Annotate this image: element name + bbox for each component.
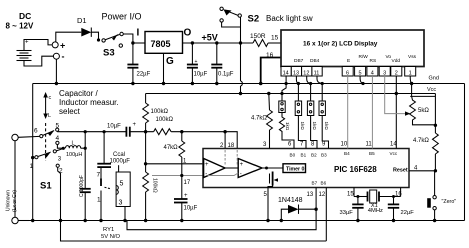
junction left edge / bottom rail [31, 219, 34, 222]
svg-text:Timer 0: Timer 0 [286, 167, 304, 173]
svg-text:Gnd: Gnd [429, 76, 439, 82]
wire S1 pin2 to ground [58, 167, 61, 220]
svg-text:4: 4 [56, 135, 60, 142]
svg-text:RY1: RY1 [103, 227, 114, 233]
wire into regulator [133, 42, 145, 44]
svg-text:S3: S3 [103, 48, 115, 59]
tank vertical wire [84, 132, 86, 189]
svg-text:B4: B4 [344, 151, 350, 156]
switch S1 pole A [34, 123, 60, 145]
wire comparator1 out to comparator2 [225, 167, 238, 169]
labels pins 6 7 8 9 [288, 142, 326, 148]
svg-text:12: 12 [319, 192, 326, 198]
svg-text:5: 5 [359, 70, 362, 76]
svg-text:17: 17 [184, 180, 191, 186]
svg-text:7805: 7805 [151, 39, 171, 49]
wire node to PIC pin 18 [225, 132, 237, 149]
resistor 100k horizontal [154, 117, 226, 135]
label DC 8~12V [6, 11, 34, 31]
svg-text:13: 13 [307, 192, 314, 198]
diode D1 [77, 16, 91, 37]
junction inductor/tank [84, 147, 87, 150]
wire S1 pin4 to inductor [57, 145, 64, 149]
resistor 4.7k reset pullup [413, 125, 438, 171]
S1 mechanical link dashed [45, 123, 47, 161]
svg-text:1kΩ: 1kΩ [285, 122, 290, 131]
junction G to ground rail [162, 82, 165, 85]
svg-text:select: select [59, 107, 81, 116]
LCD RW wire to ground [360, 76, 363, 84]
svg-text:(Lx or Cx): (Lx or Cx) [12, 190, 18, 212]
resistor 47k [164, 132, 185, 223]
svg-text:4MHz: 4MHz [368, 208, 383, 214]
relay RY1 contact [97, 167, 111, 222]
svg-text:1kΩ: 1kΩ [300, 122, 305, 131]
svg-text:B7: B7 [312, 181, 318, 186]
PIC pin 12 wire to ground loop [325, 188, 327, 242]
diode 1N4148 [278, 197, 318, 222]
svg-text:16 x 1(or 2) LCD Display: 16 x 1(or 2) LCD Display [303, 41, 378, 48]
svg-text:C 1000pF: C 1000pF [79, 175, 85, 197]
timer block Timer 0 [283, 164, 306, 173]
svg-text:B5: B5 [369, 151, 375, 156]
svg-text:10µF: 10µF [194, 72, 208, 78]
svg-text:+: + [195, 59, 198, 65]
junction node B [144, 162, 147, 165]
svg-text:100µH: 100µH [66, 152, 82, 158]
wire cap to node A [130, 131, 154, 133]
svg-text:B2: B2 [311, 153, 317, 158]
svg-text:PIC 16F628: PIC 16F628 [334, 165, 377, 174]
capacitor 33pF [340, 195, 364, 222]
comparator 2 inside PIC [238, 159, 262, 178]
svg-text:+: + [133, 122, 137, 128]
svg-text:47kΩ: 47kΩ [164, 145, 179, 151]
svg-text:-: - [205, 172, 207, 178]
crystal X1 4MHz [347, 188, 402, 214]
svg-text:1: 1 [30, 163, 34, 170]
unknown component link between terminals [14, 141, 16, 218]
wire top terminal to S1 pin 6 [18, 135, 39, 138]
svg-text:Reset: Reset [393, 167, 408, 173]
Vcc rail right drop [434, 94, 436, 126]
wire inductor to tank vertical [81, 147, 86, 149]
outer ground loop bottom [61, 221, 327, 242]
ground rail right drop [464, 84, 466, 221]
svg-text:11: 11 [314, 70, 320, 76]
wire plus terminal up to D1 [56, 32, 82, 42]
junction N2 47k tap [180, 130, 183, 133]
junction node/tank top [84, 130, 87, 133]
svg-text:33µF: 33µF [340, 210, 354, 216]
switch S2 backlight [220, 7, 313, 43]
wire D1 to S3 [91, 32, 98, 38]
gray wire into comp2 minus [208, 173, 239, 176]
main oscillator node wire [56, 130, 58, 132]
svg-text:-: - [240, 172, 242, 178]
svg-text:10: 10 [341, 141, 348, 147]
svg-text:10µF: 10µF [184, 206, 198, 212]
svg-text:3: 3 [383, 70, 386, 76]
svg-text:Back light sw: Back light sw [266, 14, 313, 23]
svg-text:22µF: 22µF [401, 210, 415, 216]
capacitor 10uF output [187, 41, 208, 85]
svg-text:14: 14 [390, 141, 397, 147]
svg-text:S2: S2 [248, 14, 260, 25]
svg-text:Vss: Vss [408, 54, 417, 60]
LCD data wire pin14 drop [285, 76, 287, 84]
capacitor 10uF comparator filter [174, 174, 198, 212]
LCD E wire to pin 10 [347, 76, 349, 149]
svg-text:B3: B3 [321, 153, 327, 158]
wire battery+ to plus terminal [24, 40, 52, 51]
resistor 100k upper [143, 94, 169, 132]
svg-text:5kΩ: 5kΩ [418, 108, 429, 114]
svg-text:+: + [184, 193, 188, 199]
svg-text:B0: B0 [290, 153, 296, 158]
junction minus/ground [55, 82, 58, 85]
wire S1 pin3 to L node [56, 148, 63, 151]
svg-text:3: 3 [119, 200, 123, 207]
svg-text:4.7kΩ: 4.7kΩ [413, 138, 429, 144]
svg-text:0.1µF: 0.1µF [218, 72, 234, 78]
svg-text:7: 7 [97, 172, 101, 179]
svg-text:11: 11 [366, 141, 373, 147]
svg-text:100kΩ: 100kΩ [151, 109, 169, 115]
resistor 150R [250, 33, 268, 47]
svg-text:16: 16 [266, 52, 274, 59]
comparator minus input wire [152, 175, 208, 177]
svg-text:1kΩ: 1kΩ [312, 122, 317, 131]
svg-text:6: 6 [34, 128, 38, 135]
wire 7805 ground pin [163, 53, 165, 83]
svg-text:O: O [184, 28, 192, 39]
PIC pin 5 ground wire [267, 188, 269, 221]
wire node B to PIC pin 1 [146, 163, 203, 165]
potentiometer 5k contrast [410, 84, 436, 125]
label RY1 5V N/O [101, 227, 120, 240]
svg-text:6: 6 [346, 70, 349, 76]
label Unknown (Lx or Cx) [6, 190, 19, 212]
svg-text:B6: B6 [321, 181, 327, 186]
wire LCD pin 16 to ground [261, 58, 281, 84]
svg-text:S1: S1 [40, 181, 52, 192]
switch S3 [102, 32, 123, 58]
wire node to PIC pin 2 [224, 132, 226, 149]
svg-text:+5V: +5V [202, 33, 218, 43]
inductor L 100uH [66, 141, 83, 159]
LCD data wire pin12 drop [307, 76, 311, 84]
svg-text:+: + [240, 162, 244, 168]
svg-text:1kΩ: 1kΩ [324, 122, 329, 131]
comparator 1 inside PIC [204, 159, 225, 178]
ground rail Gnd [33, 76, 465, 84]
svg-text:RS: RS [370, 58, 377, 64]
svg-text:+: + [205, 162, 209, 168]
svg-text:DC: DC [19, 11, 31, 21]
bottom component ground rail [18, 220, 464, 222]
svg-text:1N4148: 1N4148 [278, 197, 303, 204]
svg-text:Vcc: Vcc [427, 87, 436, 93]
svg-text:+: + [25, 40, 29, 46]
LCD display module [281, 30, 424, 67]
junction Vcc drop / pot bottom [434, 124, 437, 127]
label Capacitor/Inductor measur. select [59, 89, 119, 116]
svg-text:150R: 150R [250, 33, 266, 40]
svg-text:100kΩ: 100kΩ [152, 178, 158, 193]
svg-text:10µF: 10µF [107, 124, 121, 130]
svg-text:Inductor measur.: Inductor measur. [59, 98, 119, 107]
microcontroller U1 PIC 16F628 [203, 149, 409, 188]
svg-text:5: 5 [120, 181, 124, 188]
junction at S3 input [97, 38, 100, 41]
svg-text:DB4: DB4 [310, 58, 320, 64]
svg-text:-: - [62, 52, 65, 62]
junction pin4/pin3 node [62, 147, 65, 150]
junction S2 / +5V [239, 41, 242, 44]
svg-text:DB7: DB7 [294, 58, 304, 64]
LCD RS wire to pin 11 [371, 76, 373, 149]
svg-text:+: + [60, 41, 65, 51]
svg-text:1000µF: 1000µF [110, 159, 131, 165]
svg-text:5V N/O: 5V N/O [101, 234, 120, 240]
resistor column 1k to RB3 [319, 84, 329, 149]
resistor 100k lower [143, 164, 158, 222]
svg-text:2: 2 [395, 70, 398, 76]
ground rail left drop [32, 84, 34, 221]
wire comp2 out to timer gate [262, 167, 283, 170]
resistor column 1k to RB2 [307, 84, 317, 149]
+5V output rail [183, 42, 254, 44]
LCD Vss wire to ground [410, 76, 411, 84]
capacitor 22uF [127, 43, 150, 85]
svg-text:4.7kΩ: 4.7kΩ [251, 116, 267, 122]
Vcc rail [146, 87, 437, 94]
terminal Lx/Cx bottom [12, 217, 18, 223]
switch S1 pole B [30, 150, 64, 192]
svg-text:L: L [48, 113, 51, 119]
junction node A [144, 130, 147, 133]
svg-text:22µF: 22µF [137, 72, 151, 78]
relay drive wire to pin 13 [127, 188, 316, 230]
svg-text:Power I/O: Power I/O [102, 12, 142, 22]
svg-text:Unknown: Unknown [6, 190, 12, 211]
internal tap pin2 to comp1 output [224, 150, 226, 166]
transistor timer gate [268, 172, 278, 188]
terminal Lx/Cx top [12, 134, 18, 140]
junction node/Ccal [103, 130, 106, 133]
svg-text:c: c [49, 95, 52, 101]
svg-text:Ccal: Ccal [113, 152, 125, 158]
wire comparator input pin1 into comp1 [203, 163, 205, 165]
resistor column 1k to RB0 [279, 84, 294, 149]
wire minus terminal to ground rail [55, 59, 57, 83]
svg-text:I: I [137, 28, 140, 39]
capacitor 0.1uF [211, 41, 233, 85]
svg-text:E: E [347, 58, 350, 64]
battery BT 8-12V [17, 40, 32, 61]
svg-text:1: 1 [97, 197, 101, 204]
svg-text:Vcc: Vcc [390, 151, 398, 156]
svg-text:1: 1 [409, 70, 412, 76]
wire +5V drop to Vcc rail [240, 43, 242, 81]
LCD Vdd wire to Vcc and pin 14 [395, 76, 397, 149]
svg-text:R/W: R/W [359, 54, 369, 60]
selector arrow c/L [43, 92, 51, 119]
LCD Vo wire to pot wiper [385, 76, 407, 114]
svg-text:5: 5 [56, 123, 60, 130]
svg-text:Capacitor /: Capacitor / [59, 89, 98, 98]
svg-text:15: 15 [271, 35, 279, 42]
LCD pin number boxes [281, 67, 416, 77]
svg-text:8 ~ 12V: 8 ~ 12V [6, 22, 34, 31]
wire node A to node B [145, 132, 147, 164]
LCD data wire pin13 drop [296, 76, 298, 84]
capacitor Ccal 1000uF [97, 132, 130, 167]
resistor column 1k to RB1 [295, 84, 306, 149]
wire S3 to 7805 input [123, 34, 133, 43]
pushbutton Zero [427, 171, 456, 222]
junction pin2 tap [223, 130, 226, 133]
wire lower terminal to rail [18, 220, 29, 222]
svg-text:15: 15 [347, 192, 354, 198]
svg-text:Vdd: Vdd [392, 58, 401, 64]
svg-text:G: G [166, 56, 174, 67]
capacitor 22pF [388, 195, 414, 222]
svg-text:"Zero": "Zero" [442, 199, 457, 205]
svg-text:100kΩ: 100kΩ [156, 117, 174, 123]
svg-text:13: 13 [293, 70, 299, 76]
internal tap pin18 to comp link [236, 150, 238, 166]
junction 7805 input node [131, 41, 134, 44]
wire 150R to LCD pin 15 [268, 42, 281, 44]
regulator U2 7805 [137, 28, 192, 68]
svg-text:14: 14 [283, 70, 289, 76]
capacitor 10uF series [107, 122, 137, 137]
svg-text:12: 12 [303, 70, 309, 76]
svg-text:B1: B1 [301, 153, 307, 158]
svg-text:4: 4 [371, 70, 374, 76]
LCD data wire pin11 drop [317, 76, 322, 84]
capacitor C 1000pF [79, 175, 91, 222]
terminal + [52, 41, 65, 51]
wire battery- to minus terminal [24, 56, 53, 66]
terminal - [53, 52, 64, 62]
wire Reset pin 4 [409, 170, 435, 172]
resistor 4.7k RA4 pullup [251, 92, 272, 149]
svg-text:D1: D1 [77, 16, 87, 25]
relay RY1 coil [116, 165, 130, 222]
svg-text:L: L [72, 141, 75, 147]
